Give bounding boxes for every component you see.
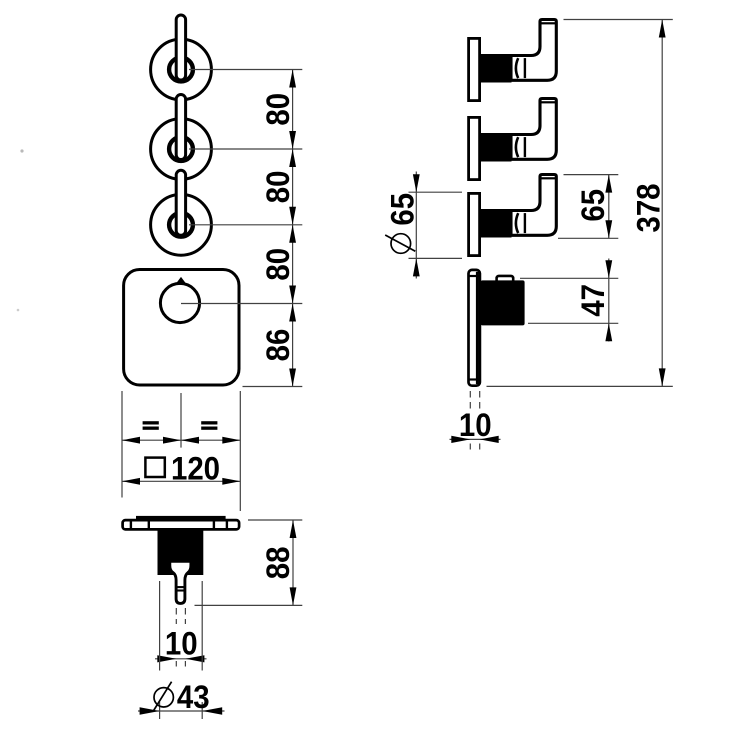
unit 2 lever handle (L-shape, side view): [511, 99, 556, 160]
plate side view divider line 2: [148, 519, 150, 530]
svg-text:378: 378: [630, 183, 666, 232]
arrowheads of dimension 10 (stem): [157, 655, 176, 662]
unit 2 wall plate (side view): [469, 117, 480, 179]
dimension line diameter 43: [138, 710, 225, 712]
arrowheads of diameter 65 (outside): [413, 174, 420, 192]
center line of plate: [180, 393, 182, 448]
unit 4 knob (black): [481, 280, 525, 325]
extension line plate top (88): [248, 519, 302, 521]
knob 1 lever (front view, vertical capsule): [176, 15, 185, 80]
dimension line 47: [608, 259, 610, 342]
dashed projection line stem left lower: [175, 661, 177, 670]
extension line knob top (47): [520, 277, 618, 279]
leader line handle tip (88): [195, 604, 303, 606]
arrowhead pair at plate-knob center: [289, 286, 296, 304]
diameter symbol of dimension 65: [391, 234, 411, 254]
knob 1 inner hub ring: [169, 58, 193, 82]
unit 4 plate top joint line: [468, 275, 480, 277]
svg-text:65: 65: [385, 193, 421, 226]
knob 2 inner hub ring: [169, 137, 193, 161]
extension line handle bottom (65): [558, 237, 618, 239]
extension line tail left (43): [159, 702, 161, 719]
dimension line 10 (stem): [155, 658, 207, 660]
arrowhead pair at knob2 center: [289, 131, 296, 149]
equality mark left (=): [143, 421, 159, 424]
arrowheads of dimension 120: [122, 478, 140, 485]
plate knob circle: [160, 283, 199, 322]
unit 2 valve body (black): [479, 133, 512, 162]
svg-text:10: 10: [165, 625, 198, 661]
plate side view divider line 4: [226, 519, 228, 530]
leader line knob2 center: [189, 148, 302, 150]
arrowheads of dimension 88: [290, 520, 297, 538]
arrowheads of half-span dimension: [122, 437, 140, 444]
handle stem profile (white, pointing down): [170, 561, 191, 603]
arrowheads of dimension 47 (outside): [605, 260, 612, 278]
knob 2 lever (front view, vertical capsule): [176, 95, 185, 160]
dimension line diameter 65: [415, 172, 417, 279]
plate side view: top lip: [136, 516, 226, 520]
faint speck left: [17, 309, 20, 312]
dashed projection plate back (10): [479, 391, 481, 409]
unit 2 handle socket line: [524, 137, 526, 157]
leader line knob3 center: [189, 224, 302, 226]
leader line knob1 center: [189, 69, 302, 71]
knob 1 outer circle (front view): [151, 39, 212, 100]
square symbol of dimension 120: [145, 458, 164, 477]
extension line knob right (43): [201, 581, 203, 671]
chained dimension line 80/80/80/86: [292, 70, 294, 387]
unit 3 handle cap seam: [541, 177, 556, 179]
extension line plate left edge: [121, 391, 123, 498]
svg-text:47: 47: [575, 284, 611, 317]
extension line plate bottom (378): [487, 385, 673, 387]
dashed projection plate back lower (10): [479, 444, 481, 454]
cartridge body (black) below plate: [158, 531, 204, 576]
dashed projection line stem right: [184, 608, 186, 624]
dimension line 65 (right): [608, 175, 610, 239]
dimension line 88: [292, 520, 294, 605]
extension line unit3 plate top (d65): [409, 191, 463, 193]
dashed projection plate front (10): [469, 391, 471, 409]
handle stem seam line 1: [176, 586, 185, 588]
arrowhead down at plate bottom: [289, 369, 296, 387]
extension line knob left (43): [159, 581, 161, 671]
unit 3 wall plate (side view): [469, 193, 480, 255]
svg-text:65: 65: [575, 189, 611, 222]
unit 1 collar disc arc: [516, 58, 518, 78]
plate side view: main bar: [123, 520, 240, 529]
extension line tail right (43): [201, 702, 203, 719]
dashed projection line stem left: [175, 608, 177, 624]
knob 2 outer circle (front view): [151, 119, 212, 180]
svg-text:43: 43: [177, 679, 210, 715]
dimension line 10 (plate): [450, 438, 501, 440]
diameter symbol of dimension 43: [154, 688, 173, 707]
faint speck top-left: [20, 149, 23, 152]
dimension line 378: [661, 20, 663, 387]
extension line knob bottom (47): [528, 322, 618, 324]
plate side view divider line 1: [130, 519, 132, 530]
extension line plate bottom: [243, 386, 303, 388]
arrowhead up at knob1 center: [289, 70, 296, 88]
arrowheads of dimension 10 (plate): [451, 436, 470, 443]
dimension line 120: [122, 480, 240, 482]
unit 1 valve body (black): [479, 54, 512, 83]
dashed projection plate front lower (10): [469, 444, 471, 454]
dashed projection line stem right lower: [184, 661, 186, 670]
unit 4 knob button tab: [497, 276, 514, 284]
extension line plate right edge: [239, 391, 241, 511]
arrowheads of dimension 65 (right): [605, 175, 612, 193]
unit 4 plate bottom joint line: [468, 378, 480, 380]
svg-text:86: 86: [260, 329, 296, 362]
arrowhead pair at knob3 center: [289, 207, 296, 225]
unit 1 wall plate (side view): [469, 38, 480, 100]
knob 3 inner hub ring: [169, 213, 193, 237]
svg-text:88: 88: [260, 547, 296, 580]
unit 2 handle cap seam: [541, 101, 556, 103]
svg-text:10: 10: [459, 407, 492, 443]
svg-text:80: 80: [260, 93, 296, 126]
extension line handle top (65): [564, 174, 619, 176]
handle stem seam line 2: [176, 589, 185, 591]
extension line stem top (378): [564, 19, 673, 21]
svg-text:80: 80: [260, 248, 296, 281]
plate knob index triangle marker: [175, 277, 187, 285]
unit 1 lever handle (L-shape, side view): [511, 20, 556, 81]
unit 1 handle cap seam: [541, 22, 556, 24]
leader line plate-knob center: [181, 303, 302, 305]
arrowheads of dimension 378: [659, 20, 666, 38]
unit 4 wall plate (side view of square plate): [469, 270, 480, 386]
unit 3 lever handle (L-shape, side view): [511, 175, 556, 236]
unit 4 plate inner band: [476, 272, 479, 384]
unit 3 valve body (black): [479, 209, 512, 238]
knob 3 outer circle (front view): [151, 194, 212, 255]
unit 3 handle socket line: [524, 213, 526, 233]
square plate 120x120 (front view): [124, 270, 239, 386]
equality mark right (=): [201, 421, 217, 424]
extension line unit3 plate bottom (d65): [409, 257, 463, 259]
half-span dimension line (equal halves): [122, 439, 240, 441]
knob 3 lever (front view, vertical capsule): [176, 170, 185, 235]
arrowheads of dimension 43: [140, 707, 160, 714]
unit 2 collar disc arc: [516, 137, 518, 157]
unit 1 handle socket line: [524, 58, 526, 78]
svg-text:80: 80: [260, 171, 296, 204]
unit 3 collar disc arc: [516, 213, 518, 233]
plate side view divider line 3: [213, 519, 215, 530]
